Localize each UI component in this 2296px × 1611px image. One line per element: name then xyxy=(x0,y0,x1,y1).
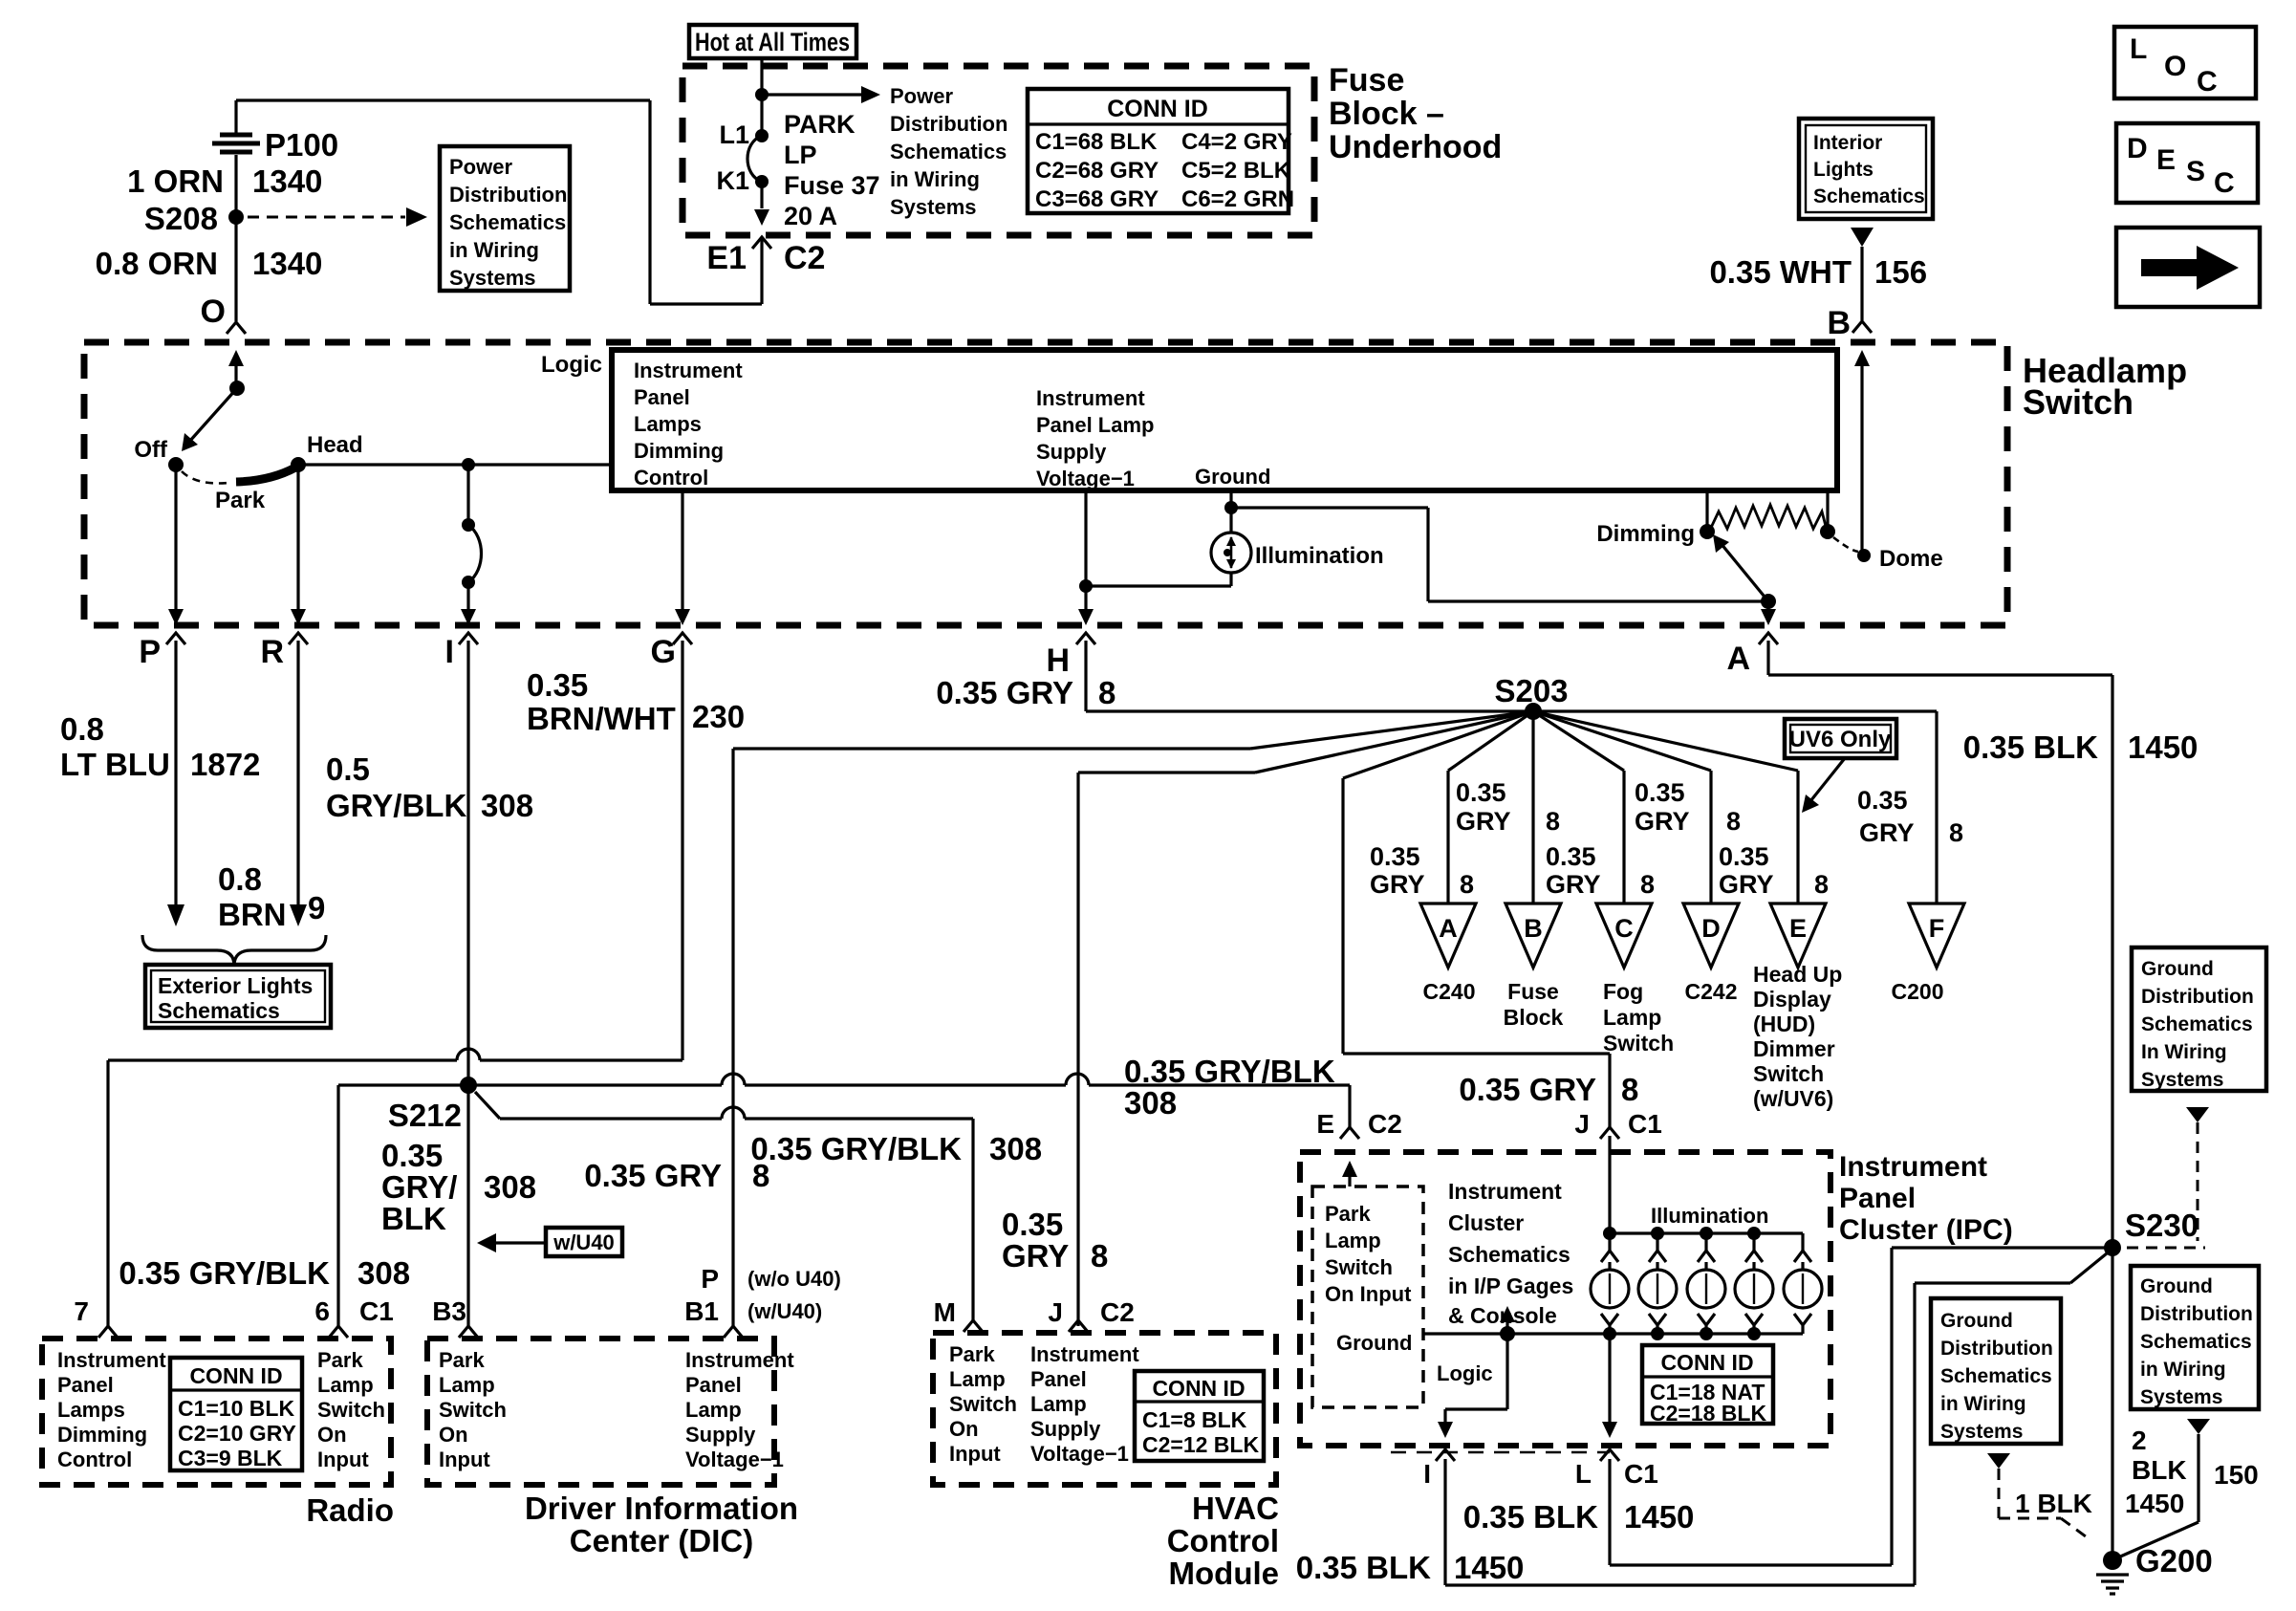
svg-text:E: E xyxy=(1316,1109,1334,1139)
svg-text:G: G xyxy=(651,634,676,670)
svg-text:0.35: 0.35 xyxy=(1370,842,1420,871)
svg-text:C1: C1 xyxy=(359,1296,394,1326)
svg-text:On Input: On Input xyxy=(1325,1282,1412,1306)
svg-text:Fuse: Fuse xyxy=(1507,979,1559,1004)
svg-text:Input: Input xyxy=(317,1448,369,1471)
svg-text:B: B xyxy=(1827,305,1851,341)
svg-text:Park: Park xyxy=(1325,1202,1371,1226)
svg-text:Fuse 37: Fuse 37 xyxy=(784,171,880,200)
svg-text:GRY: GRY xyxy=(1635,807,1690,836)
svg-text:Instrument: Instrument xyxy=(1448,1179,1562,1204)
svg-text:1872: 1872 xyxy=(190,747,260,782)
svg-text:0.35 GRY: 0.35 GRY xyxy=(936,675,1073,710)
svg-text:8: 8 xyxy=(1949,818,1963,847)
svg-text:Ground: Ground xyxy=(2141,958,2214,980)
svg-text:CONN ID: CONN ID xyxy=(1660,1350,1753,1375)
svg-text:0.35 BLK: 0.35 BLK xyxy=(1963,729,2098,765)
svg-text:1450: 1450 xyxy=(2125,1489,2184,1518)
svg-text:Interior: Interior xyxy=(1813,132,1882,154)
svg-text:308: 308 xyxy=(357,1255,410,1291)
svg-text:Schematics: Schematics xyxy=(1813,185,1925,207)
svg-text:Distribution: Distribution xyxy=(890,112,1007,136)
svg-text:Distribution: Distribution xyxy=(449,183,567,207)
svg-text:GRY: GRY xyxy=(1719,870,1774,899)
svg-text:C1: C1 xyxy=(1624,1459,1658,1489)
svg-text:F: F xyxy=(1929,914,1945,943)
svg-text:Switch: Switch xyxy=(1325,1255,1393,1279)
svg-text:C1=68 BLK: C1=68 BLK xyxy=(1035,129,1158,155)
svg-text:Lamp: Lamp xyxy=(949,1367,1006,1391)
svg-text:UV6 Only: UV6 Only xyxy=(1789,727,1892,752)
svg-text:Ground: Ground xyxy=(1940,1310,2013,1332)
svg-text:A: A xyxy=(1439,914,1458,943)
svg-text:C2: C2 xyxy=(1100,1297,1135,1327)
svg-text:0.5: 0.5 xyxy=(326,751,370,787)
svg-text:C1=10 BLK: C1=10 BLK xyxy=(178,1396,294,1421)
svg-text:Systems: Systems xyxy=(449,266,536,290)
svg-text:Instrument: Instrument xyxy=(1839,1151,1987,1183)
svg-text:I: I xyxy=(1423,1459,1431,1489)
svg-text:L: L xyxy=(2130,33,2147,65)
svg-text:Ground: Ground xyxy=(1195,465,1270,489)
svg-text:Schematics: Schematics xyxy=(1940,1365,2052,1387)
svg-text:Off: Off xyxy=(134,437,168,463)
svg-text:Lamp: Lamp xyxy=(685,1398,742,1422)
svg-text:CONN ID: CONN ID xyxy=(1107,96,1208,122)
svg-text:C2: C2 xyxy=(1368,1109,1402,1139)
svg-text:Fog: Fog xyxy=(1603,979,1643,1004)
svg-text:Voltage−1: Voltage−1 xyxy=(1036,467,1135,490)
svg-text:156: 156 xyxy=(1874,254,1927,290)
svg-text:Instrument: Instrument xyxy=(685,1348,794,1372)
svg-text:0.35 GRY: 0.35 GRY xyxy=(1459,1072,1596,1107)
svg-text:0.35 BLK: 0.35 BLK xyxy=(1463,1499,1598,1535)
svg-text:0.8: 0.8 xyxy=(60,711,104,747)
svg-text:P: P xyxy=(701,1264,719,1294)
svg-text:K1: K1 xyxy=(716,166,749,195)
svg-text:GRY: GRY xyxy=(1002,1238,1069,1274)
svg-text:Underhood: Underhood xyxy=(1329,129,1502,165)
svg-text:1450: 1450 xyxy=(2128,729,2198,765)
svg-text:in Wiring: in Wiring xyxy=(1940,1393,2026,1415)
svg-text:CONN ID: CONN ID xyxy=(189,1363,282,1388)
svg-text:230: 230 xyxy=(692,699,745,734)
svg-text:Switch: Switch xyxy=(2023,382,2134,422)
svg-text:G200: G200 xyxy=(2135,1543,2213,1578)
svg-text:LP: LP xyxy=(784,141,817,169)
svg-text:308: 308 xyxy=(989,1131,1042,1166)
svg-text:0.35: 0.35 xyxy=(1456,778,1506,807)
svg-text:Switch: Switch xyxy=(439,1398,507,1422)
svg-text:Schematics: Schematics xyxy=(2141,1013,2253,1035)
svg-text:(w/UV6): (w/UV6) xyxy=(1753,1086,1833,1111)
svg-text:2: 2 xyxy=(2132,1426,2147,1455)
svg-text:Lamps: Lamps xyxy=(57,1398,125,1422)
svg-text:B3: B3 xyxy=(432,1296,466,1326)
svg-text:Instrument: Instrument xyxy=(57,1348,166,1372)
svg-text:C2: C2 xyxy=(784,240,825,276)
svg-text:Dimming: Dimming xyxy=(1596,521,1695,547)
svg-text:L: L xyxy=(1575,1459,1592,1489)
svg-text:Park: Park xyxy=(439,1348,485,1372)
svg-text:0.35 BLK: 0.35 BLK xyxy=(1296,1550,1431,1585)
svg-text:A: A xyxy=(1726,641,1750,677)
svg-text:Block –: Block – xyxy=(1329,96,1444,132)
svg-text:L1: L1 xyxy=(719,120,749,149)
svg-text:Logic: Logic xyxy=(541,352,602,378)
svg-text:Block: Block xyxy=(1504,1005,1564,1030)
svg-text:Cluster (IPC): Cluster (IPC) xyxy=(1839,1214,2013,1246)
svg-text:0.35 GRY/BLK: 0.35 GRY/BLK xyxy=(750,1131,962,1166)
svg-text:0.35: 0.35 xyxy=(381,1138,443,1173)
svg-text:On: On xyxy=(949,1417,979,1441)
svg-text:1 ORN: 1 ORN xyxy=(127,163,224,199)
svg-text:C5=2 BLK: C5=2 BLK xyxy=(1181,158,1291,184)
svg-text:308: 308 xyxy=(484,1169,536,1205)
svg-text:in Wiring: in Wiring xyxy=(890,167,980,191)
svg-text:8: 8 xyxy=(1546,807,1560,836)
svg-text:Switch: Switch xyxy=(1603,1031,1674,1056)
svg-text:Dimming: Dimming xyxy=(634,439,724,463)
svg-text:C2=68 GRY: C2=68 GRY xyxy=(1035,158,1159,184)
svg-text:Panel: Panel xyxy=(634,385,690,409)
svg-text:Lights: Lights xyxy=(1813,159,1874,181)
svg-text:BRN/WHT: BRN/WHT xyxy=(527,701,676,736)
svg-text:Cluster: Cluster xyxy=(1448,1210,1524,1235)
svg-text:0.35 GRY/BLK: 0.35 GRY/BLK xyxy=(1124,1054,1335,1089)
svg-text:Systems: Systems xyxy=(1940,1421,2023,1443)
svg-text:Schematics: Schematics xyxy=(1448,1242,1570,1267)
svg-text:Distribution: Distribution xyxy=(1940,1338,2053,1360)
svg-text:On: On xyxy=(317,1423,347,1447)
svg-text:Lamp: Lamp xyxy=(317,1373,374,1397)
svg-text:150: 150 xyxy=(2214,1460,2259,1490)
svg-text:Distribution: Distribution xyxy=(2141,986,2254,1008)
svg-text:C: C xyxy=(2197,66,2218,98)
svg-text:Exterior Lights: Exterior Lights xyxy=(158,973,313,998)
svg-text:Systems: Systems xyxy=(2140,1386,2222,1408)
svg-text:0.35: 0.35 xyxy=(1857,786,1908,815)
svg-text:D: D xyxy=(2127,133,2148,164)
svg-text:Fuse: Fuse xyxy=(1329,62,1404,98)
svg-text:(w/U40): (w/U40) xyxy=(747,1299,822,1323)
svg-text:Panel: Panel xyxy=(1839,1183,1916,1214)
svg-text:Head: Head xyxy=(307,432,363,458)
svg-text:Power: Power xyxy=(890,84,953,108)
svg-text:Distribution: Distribution xyxy=(2140,1303,2253,1325)
svg-text:Ground: Ground xyxy=(1336,1331,1412,1355)
svg-text:0.35: 0.35 xyxy=(1546,842,1596,871)
svg-text:1 BLK: 1 BLK xyxy=(2015,1489,2092,1518)
svg-text:8: 8 xyxy=(1814,870,1829,899)
svg-text:On: On xyxy=(439,1423,468,1447)
svg-text:B: B xyxy=(1524,914,1543,943)
svg-text:Dimming: Dimming xyxy=(57,1423,147,1447)
svg-text:Driver Information: Driver Information xyxy=(525,1491,798,1526)
svg-text:6: 6 xyxy=(314,1296,330,1326)
svg-text:GRY/BLK: GRY/BLK xyxy=(326,788,466,823)
svg-text:1340: 1340 xyxy=(252,246,322,281)
svg-text:Lamp: Lamp xyxy=(439,1373,495,1397)
svg-text:Park: Park xyxy=(215,488,266,513)
svg-text:Head Up: Head Up xyxy=(1753,962,1842,987)
svg-text:8: 8 xyxy=(1621,1072,1638,1107)
svg-text:C200: C200 xyxy=(1892,979,1944,1004)
svg-text:S208: S208 xyxy=(144,201,218,236)
svg-text:Illumination: Illumination xyxy=(1255,543,1384,569)
svg-text:308: 308 xyxy=(1124,1085,1177,1121)
svg-text:GRY/: GRY/ xyxy=(381,1169,457,1205)
svg-text:Voltage−1: Voltage−1 xyxy=(1030,1442,1129,1466)
svg-text:C2=10 GRY: C2=10 GRY xyxy=(178,1421,296,1446)
svg-text:R: R xyxy=(260,634,284,670)
svg-text:C3=68 GRY: C3=68 GRY xyxy=(1035,186,1159,212)
svg-text:0.35 GRY/BLK: 0.35 GRY/BLK xyxy=(119,1255,330,1291)
svg-text:8: 8 xyxy=(1726,807,1741,836)
svg-text:0.35: 0.35 xyxy=(527,667,588,703)
svg-text:Power: Power xyxy=(449,155,512,179)
svg-text:Illumination: Illumination xyxy=(1651,1204,1768,1228)
svg-text:Lamp: Lamp xyxy=(1325,1229,1381,1252)
svg-text:Instrument: Instrument xyxy=(1036,386,1145,410)
svg-text:D: D xyxy=(1701,914,1721,943)
svg-text:S: S xyxy=(2186,156,2205,187)
svg-text:C4=2 GRY: C4=2 GRY xyxy=(1181,129,1292,155)
svg-text:Supply: Supply xyxy=(685,1423,756,1447)
svg-text:Park: Park xyxy=(949,1342,995,1366)
svg-text:(HUD): (HUD) xyxy=(1753,1012,1815,1036)
svg-text:1450: 1450 xyxy=(1624,1499,1694,1535)
svg-text:Dome: Dome xyxy=(1879,546,1943,572)
svg-text:Display: Display xyxy=(1753,987,1831,1012)
svg-text:0.35: 0.35 xyxy=(1635,778,1685,807)
svg-text:C2=18 BLK: C2=18 BLK xyxy=(1650,1401,1766,1426)
svg-text:Input: Input xyxy=(949,1442,1001,1466)
svg-text:P100: P100 xyxy=(265,127,338,163)
svg-text:8: 8 xyxy=(1460,870,1474,899)
svg-text:Panel: Panel xyxy=(1030,1367,1087,1391)
svg-text:0.35: 0.35 xyxy=(1002,1207,1063,1242)
svg-text:BLK: BLK xyxy=(2132,1455,2187,1485)
svg-text:1450: 1450 xyxy=(1454,1550,1524,1585)
svg-text:9: 9 xyxy=(308,890,325,925)
svg-text:Panel: Panel xyxy=(57,1373,114,1397)
svg-text:E: E xyxy=(1789,914,1807,943)
svg-text:Switch: Switch xyxy=(949,1392,1017,1416)
svg-text:C2=12 BLK: C2=12 BLK xyxy=(1142,1432,1259,1457)
svg-text:w/U40: w/U40 xyxy=(552,1230,615,1254)
svg-text:Systems: Systems xyxy=(2141,1069,2223,1091)
svg-text:Hot at All Times: Hot at All Times xyxy=(695,28,850,56)
svg-text:E1: E1 xyxy=(706,240,747,276)
svg-text:Module: Module xyxy=(1169,1556,1279,1591)
svg-text:0.8 ORN: 0.8 ORN xyxy=(96,246,218,281)
svg-text:Lamp: Lamp xyxy=(1030,1392,1087,1416)
svg-text:BRN: BRN xyxy=(218,897,287,932)
svg-text:Voltage−1: Voltage−1 xyxy=(685,1448,784,1471)
svg-text:Control: Control xyxy=(634,466,708,490)
svg-text:Systems: Systems xyxy=(890,195,977,219)
svg-text:Dimmer: Dimmer xyxy=(1753,1036,1835,1061)
svg-text:308: 308 xyxy=(481,788,533,823)
svg-text:C1: C1 xyxy=(1628,1109,1662,1139)
svg-text:0.8: 0.8 xyxy=(218,861,262,897)
svg-text:C1=8 BLK: C1=8 BLK xyxy=(1142,1407,1247,1432)
svg-text:Park: Park xyxy=(317,1348,363,1372)
svg-text:in Wiring: in Wiring xyxy=(2140,1359,2226,1381)
svg-text:I: I xyxy=(445,634,454,670)
svg-text:C242: C242 xyxy=(1685,979,1738,1004)
svg-text:0.35 WHT: 0.35 WHT xyxy=(1709,254,1852,290)
svg-text:Radio: Radio xyxy=(306,1492,394,1528)
svg-text:Input: Input xyxy=(439,1448,490,1471)
svg-text:Switch: Switch xyxy=(1753,1061,1824,1086)
svg-text:C: C xyxy=(1614,914,1634,943)
svg-text:C240: C240 xyxy=(1423,979,1476,1004)
svg-text:in Wiring: in Wiring xyxy=(449,238,539,262)
svg-text:Lamps: Lamps xyxy=(634,412,702,436)
svg-text:S203: S203 xyxy=(1494,673,1568,708)
svg-text:GRY: GRY xyxy=(1546,870,1601,899)
svg-text:GRY: GRY xyxy=(1370,870,1425,899)
svg-text:C: C xyxy=(2214,167,2235,199)
svg-text:Schematics: Schematics xyxy=(449,210,566,234)
svg-text:Control: Control xyxy=(1167,1523,1279,1558)
svg-text:M: M xyxy=(934,1297,956,1327)
svg-text:PARK: PARK xyxy=(784,110,856,139)
svg-text:Logic: Logic xyxy=(1437,1361,1493,1385)
svg-text:0.35: 0.35 xyxy=(1719,842,1769,871)
svg-text:Switch: Switch xyxy=(317,1398,385,1422)
svg-text:Supply: Supply xyxy=(1036,440,1107,464)
svg-text:S212: S212 xyxy=(388,1098,462,1133)
svg-text:BLK: BLK xyxy=(381,1201,446,1236)
svg-text:O: O xyxy=(2164,51,2186,82)
svg-text:J: J xyxy=(1574,1109,1590,1139)
svg-text:In Wiring: In Wiring xyxy=(2141,1041,2227,1063)
svg-text:CONN ID: CONN ID xyxy=(1152,1376,1245,1401)
svg-text:7: 7 xyxy=(74,1296,89,1326)
svg-text:C3=9 BLK: C3=9 BLK xyxy=(178,1446,283,1470)
svg-text:B1: B1 xyxy=(684,1296,719,1326)
svg-text:Control: Control xyxy=(57,1448,132,1471)
svg-text:20 A: 20 A xyxy=(784,202,837,230)
svg-text:S230: S230 xyxy=(2125,1208,2199,1243)
svg-text:Panel: Panel xyxy=(685,1373,742,1397)
svg-text:GRY: GRY xyxy=(1456,807,1511,836)
svg-text:Center (DIC): Center (DIC) xyxy=(570,1523,754,1558)
svg-text:Lamp: Lamp xyxy=(1603,1005,1661,1030)
svg-text:Schematics: Schematics xyxy=(890,140,1007,163)
svg-text:8: 8 xyxy=(1098,675,1116,710)
svg-text:GRY: GRY xyxy=(1859,818,1915,847)
svg-text:H: H xyxy=(1046,642,1070,679)
svg-text:P: P xyxy=(139,634,161,670)
svg-text:Ground: Ground xyxy=(2140,1275,2213,1297)
svg-text:E: E xyxy=(2156,144,2176,176)
svg-text:Instrument: Instrument xyxy=(1030,1342,1139,1366)
svg-text:8: 8 xyxy=(1091,1238,1108,1274)
svg-text:Schematics: Schematics xyxy=(158,998,280,1023)
svg-text:(w/o U40): (w/o U40) xyxy=(747,1267,841,1291)
svg-text:0.35 GRY: 0.35 GRY xyxy=(584,1158,722,1193)
svg-text:Supply: Supply xyxy=(1030,1417,1101,1441)
svg-text:C6=2 GRN: C6=2 GRN xyxy=(1181,186,1294,212)
svg-text:8: 8 xyxy=(1640,870,1655,899)
svg-text:HVAC: HVAC xyxy=(1192,1491,1279,1526)
svg-text:J: J xyxy=(1048,1297,1063,1327)
svg-text:in I/P Gages: in I/P Gages xyxy=(1448,1274,1573,1298)
svg-text:Panel Lamp: Panel Lamp xyxy=(1036,413,1154,437)
svg-text:Instrument: Instrument xyxy=(634,359,743,382)
svg-text:LT BLU: LT BLU xyxy=(60,747,170,782)
svg-text:O: O xyxy=(201,294,226,330)
svg-text:Schematics: Schematics xyxy=(2140,1331,2252,1353)
svg-text:& Console: & Console xyxy=(1448,1303,1557,1328)
svg-text:1340: 1340 xyxy=(252,163,322,199)
